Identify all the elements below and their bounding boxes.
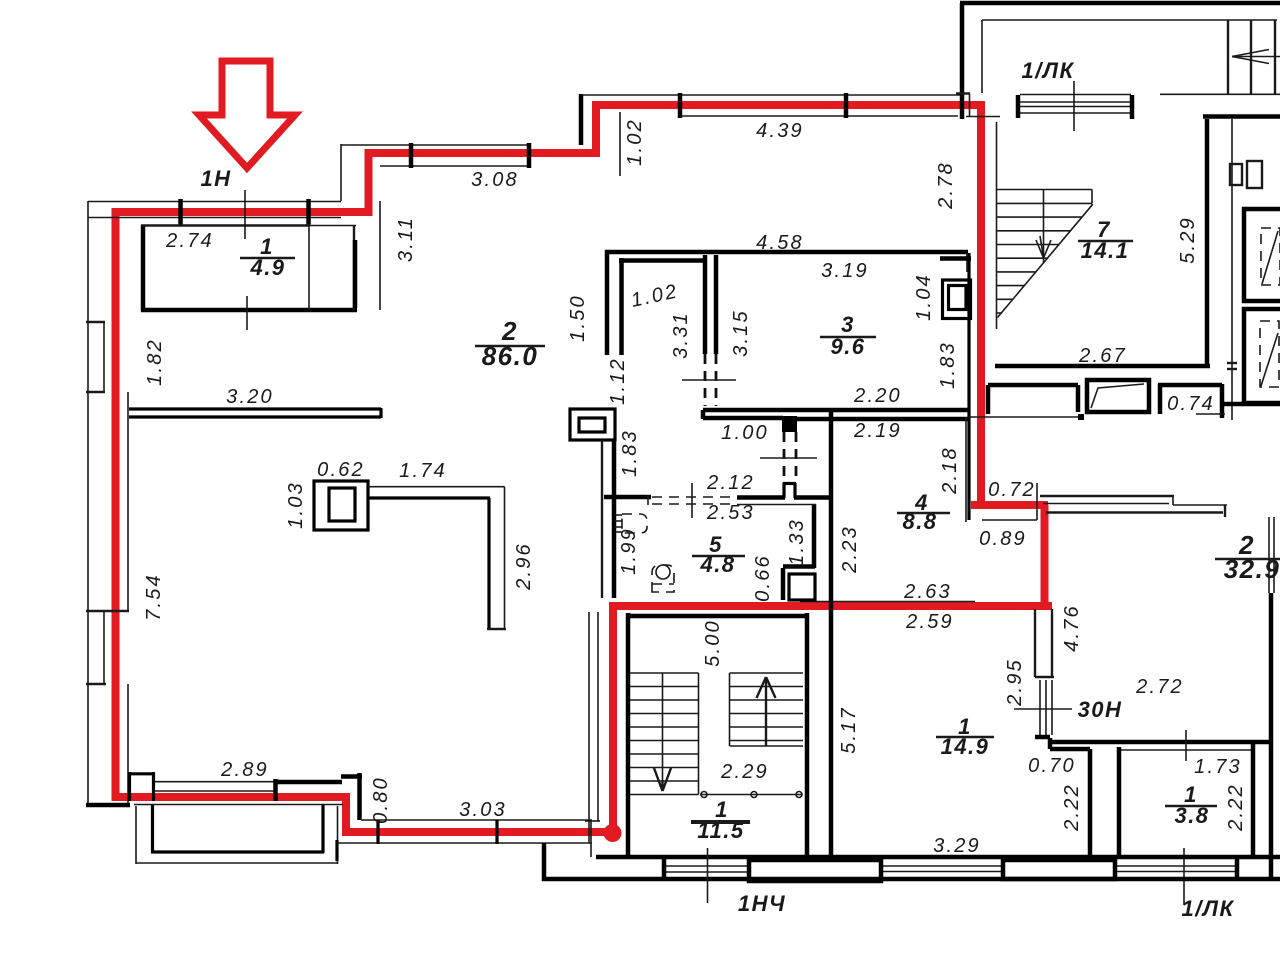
svg-text:1.33: 1.33 [786, 518, 808, 566]
svg-text:1.74: 1.74 [399, 460, 447, 482]
svg-text:2.22: 2.22 [1061, 783, 1083, 832]
svg-text:4.76: 4.76 [1061, 604, 1083, 652]
svg-text:2.67: 2.67 [1078, 345, 1127, 367]
svg-text:1.50: 1.50 [567, 294, 589, 342]
svg-text:3.31: 3.31 [670, 311, 692, 359]
svg-text:1.04: 1.04 [913, 273, 935, 321]
svg-text:2.72: 2.72 [1135, 676, 1184, 698]
svg-text:1.73: 1.73 [1194, 756, 1242, 778]
svg-text:3.08: 3.08 [471, 169, 519, 191]
svg-text:4.58: 4.58 [756, 232, 804, 254]
svg-text:2.74: 2.74 [165, 230, 214, 252]
svg-text:1.99: 1.99 [618, 527, 640, 575]
svg-text:5.29: 5.29 [1177, 216, 1199, 264]
svg-text:1.12: 1.12 [607, 357, 629, 405]
svg-text:0.72: 0.72 [988, 479, 1036, 501]
svg-text:5.00: 5.00 [702, 619, 724, 667]
svg-text:2.19: 2.19 [853, 420, 902, 442]
svg-text:0.70: 0.70 [1028, 755, 1076, 777]
svg-text:2.29: 2.29 [720, 761, 769, 783]
svg-text:2.18: 2.18 [939, 446, 961, 495]
svg-text:2.96: 2.96 [513, 542, 535, 591]
svg-text:0.74: 0.74 [1167, 393, 1215, 415]
svg-text:1.82: 1.82 [144, 338, 166, 386]
svg-text:1/ЛК: 1/ЛК [1022, 58, 1075, 83]
svg-text:2.22: 2.22 [1225, 783, 1247, 832]
svg-text:3.29: 3.29 [933, 835, 981, 857]
svg-text:1.83: 1.83 [619, 429, 641, 477]
svg-text:3.19: 3.19 [821, 260, 869, 282]
svg-text:2.12: 2.12 [706, 472, 755, 494]
svg-text:2.23: 2.23 [839, 525, 861, 574]
svg-text:2.53: 2.53 [706, 502, 755, 524]
svg-text:1.02: 1.02 [624, 118, 646, 166]
svg-text:0.89: 0.89 [979, 528, 1027, 550]
svg-text:0.80: 0.80 [370, 776, 392, 824]
svg-text:3.03: 3.03 [459, 799, 507, 821]
svg-text:3.11: 3.11 [395, 216, 417, 262]
svg-text:4.39: 4.39 [756, 120, 804, 142]
svg-text:1Н: 1Н [200, 166, 231, 191]
svg-text:7.54: 7.54 [143, 573, 165, 621]
svg-text:2.89: 2.89 [220, 759, 269, 781]
svg-text:1.03: 1.03 [285, 481, 307, 529]
svg-text:2.20: 2.20 [853, 385, 902, 407]
svg-text:3.15: 3.15 [730, 309, 752, 357]
svg-text:1НЧ: 1НЧ [738, 891, 786, 916]
svg-text:2.59: 2.59 [905, 611, 954, 633]
svg-text:30Н: 30Н [1078, 697, 1123, 722]
svg-text:5.17: 5.17 [838, 706, 860, 754]
svg-text:2.78: 2.78 [935, 161, 957, 210]
svg-text:1.83: 1.83 [937, 341, 959, 389]
svg-text:1/ЛК: 1/ЛК [1182, 896, 1235, 921]
svg-text:2.63: 2.63 [903, 581, 952, 603]
svg-text:0.62: 0.62 [317, 459, 365, 481]
svg-text:1.00: 1.00 [721, 422, 769, 444]
svg-text:3.20: 3.20 [226, 386, 274, 408]
svg-text:2.95: 2.95 [1004, 658, 1026, 707]
svg-text:0.66: 0.66 [752, 554, 774, 602]
